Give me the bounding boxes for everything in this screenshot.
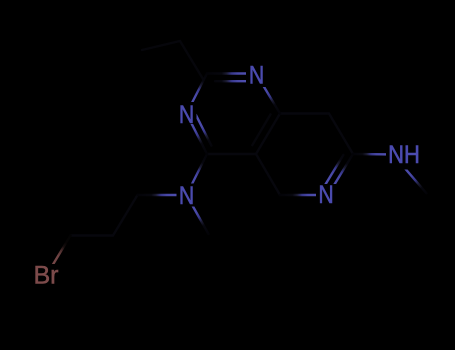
wire C4a-C5 xyxy=(256,154,280,195)
wire C4a=C8a ring fusion bond xyxy=(256,114,280,155)
bond C2=N1 main xyxy=(207,72,256,74)
bond C2=N1 inner xyxy=(215,80,249,82)
bond N(amine)-CH3 xyxy=(187,195,209,234)
wire C4a=C8a inner line xyxy=(252,114,270,145)
bond C2-N3 xyxy=(187,74,208,114)
svg-text:NH: NH xyxy=(388,141,420,169)
bond N6=C7 main xyxy=(328,154,353,195)
wire C8a-C8 xyxy=(280,112,329,114)
bond NH-CH3 xyxy=(393,155,426,194)
wire chain C2'-C3' xyxy=(71,234,114,236)
wire C8-C7 xyxy=(329,114,353,155)
svg-text:N: N xyxy=(249,61,264,89)
wire faint C2 substituent xyxy=(142,41,203,79)
svg-text:Br: Br xyxy=(34,262,59,290)
bond C5-N6 xyxy=(280,194,328,196)
bond N(amine)-C4 xyxy=(187,154,208,195)
bond N1-C8a xyxy=(256,74,280,114)
bond N3=C4 main xyxy=(187,114,208,155)
bond C3'-Br xyxy=(46,236,71,277)
svg-text:N: N xyxy=(318,180,333,208)
label knockouts xyxy=(246,63,267,87)
bond C7-NH xyxy=(353,153,396,156)
svg-text:N: N xyxy=(179,100,194,128)
wire chain C1'-C2' xyxy=(113,195,138,236)
bond N3=C4 inner xyxy=(196,115,212,146)
wire C4-C4a xyxy=(207,153,256,155)
svg-text:N: N xyxy=(179,181,194,209)
bond N6=C7 inner xyxy=(324,155,343,186)
bond N(amine)-C1' xyxy=(138,194,187,196)
